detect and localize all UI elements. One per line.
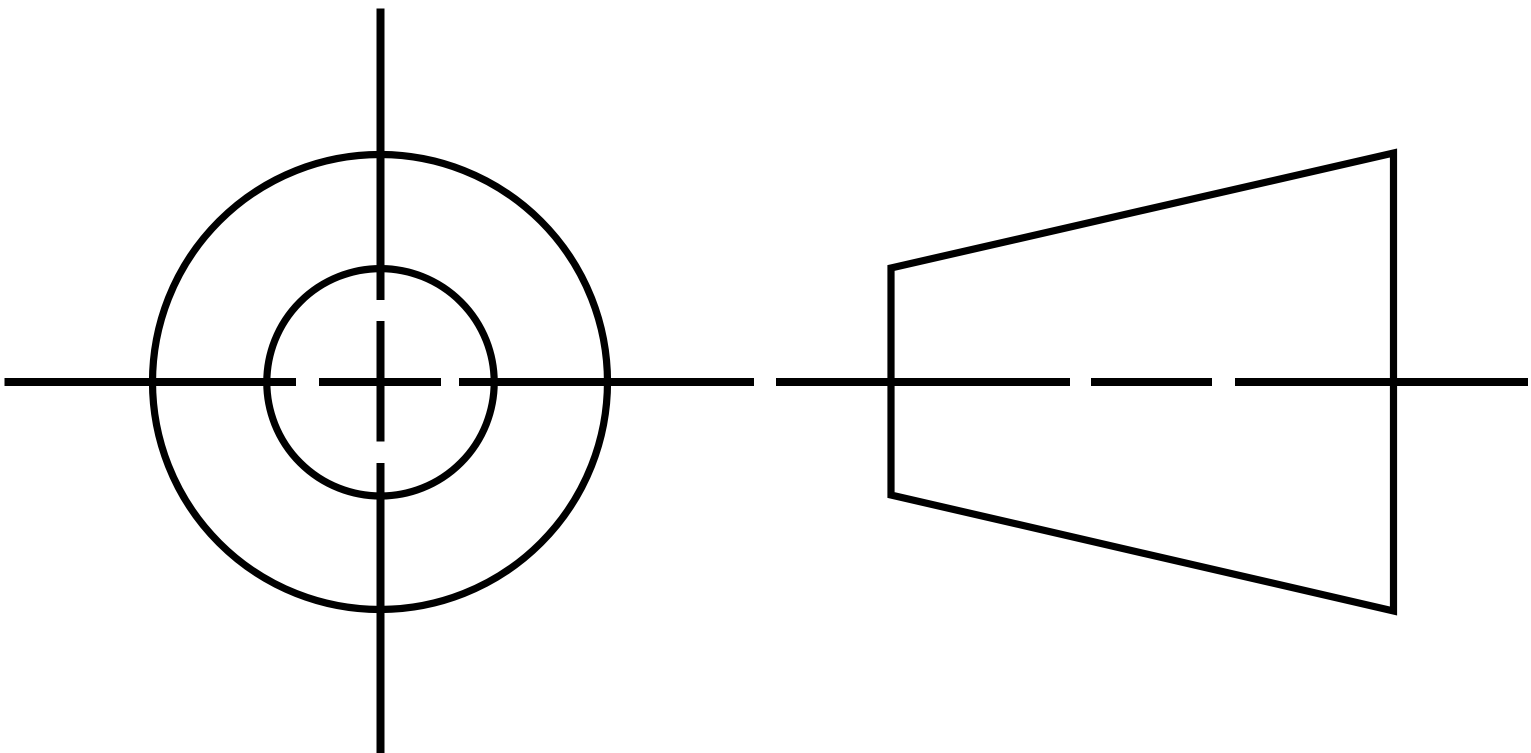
side view trapezoid outline xyxy=(891,153,1394,611)
front view inner circle xyxy=(267,269,494,496)
vertical centerline short dash at front view center xyxy=(377,321,385,442)
horizontal centerline short dash at side view center xyxy=(1091,378,1212,386)
horizontal centerline long dash between views xyxy=(459,378,754,386)
vertical centerline long dash top xyxy=(377,9,385,301)
horizontal centerline short dash at front view center xyxy=(319,378,441,386)
horizontal centerline long dash left xyxy=(5,378,297,386)
horizontal centerline long dash entering side view xyxy=(776,378,1070,386)
front view outer circle xyxy=(153,155,608,610)
vertical centerline long dash bottom xyxy=(377,463,385,753)
horizontal centerline long dash right xyxy=(1235,378,1528,386)
